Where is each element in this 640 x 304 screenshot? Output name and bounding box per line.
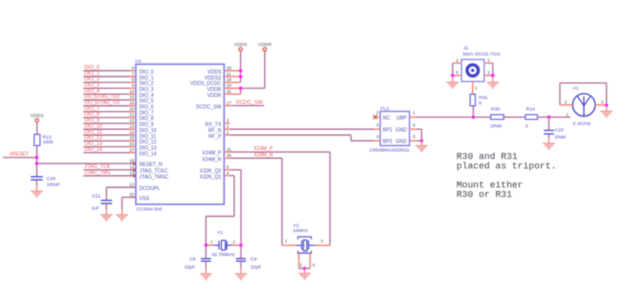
svg-text:33: 33 bbox=[129, 192, 134, 197]
svg-text:11: 11 bbox=[227, 71, 232, 76]
svg-text:25: 25 bbox=[129, 136, 134, 141]
svg-text:12: 12 bbox=[129, 182, 134, 187]
svg-text:10: 10 bbox=[129, 89, 134, 94]
svg-text:R14: R14 bbox=[526, 106, 535, 112]
svg-text:JTAG_TMSC: JTAG_TMSC bbox=[139, 175, 169, 181]
svg-text:22pF: 22pF bbox=[251, 264, 262, 270]
svg-text:16: 16 bbox=[129, 101, 134, 106]
svg-text:18: 18 bbox=[227, 77, 232, 82]
svg-text:C21: C21 bbox=[92, 194, 101, 200]
svg-text:21: 21 bbox=[129, 112, 134, 117]
svg-text:SMA-10V21-TGG: SMA-10V21-TGG bbox=[463, 52, 501, 58]
svg-text:24MHz: 24MHz bbox=[293, 228, 309, 234]
svg-text:DCOUPL: DCOUPL bbox=[139, 186, 160, 192]
svg-text:27: 27 bbox=[129, 147, 134, 152]
svg-text:NC: NC bbox=[383, 115, 391, 121]
svg-text:C28: C28 bbox=[47, 176, 56, 182]
svg-text:DCDC_SW: DCDC_SW bbox=[236, 100, 263, 106]
svg-text:R30: R30 bbox=[491, 106, 500, 112]
svg-text:X24M_N: X24M_N bbox=[254, 152, 274, 158]
svg-text:BP2: BP2 bbox=[383, 139, 393, 145]
svg-text:GND: GND bbox=[396, 127, 408, 133]
svg-text:X24M_P: X24M_P bbox=[202, 151, 222, 157]
svg-text:20: 20 bbox=[129, 106, 134, 111]
svg-text:R31: R31 bbox=[479, 95, 488, 101]
svg-text:17: 17 bbox=[227, 100, 232, 105]
svg-text:FL2: FL2 bbox=[381, 106, 390, 112]
svg-text:29: 29 bbox=[227, 83, 232, 88]
svg-text:nRESET: nRESET bbox=[10, 152, 29, 158]
svg-text:100nF: 100nF bbox=[47, 182, 61, 188]
svg-text:30: 30 bbox=[227, 153, 232, 158]
svg-text:A1: A1 bbox=[573, 85, 579, 91]
svg-text:0: 0 bbox=[479, 100, 482, 106]
svg-text:22pF: 22pF bbox=[184, 264, 195, 270]
svg-text:VSS: VSS bbox=[139, 196, 150, 202]
svg-text:100k: 100k bbox=[43, 140, 54, 146]
svg-text:VDDR: VDDR bbox=[258, 42, 272, 48]
svg-text:0: 0 bbox=[525, 124, 528, 130]
svg-text:C9: C9 bbox=[251, 256, 257, 262]
svg-text:Y1: Y1 bbox=[217, 230, 223, 236]
svg-text:RESET_N: RESET_N bbox=[139, 162, 162, 168]
svg-text:32: 32 bbox=[227, 89, 232, 94]
svg-text:VDDS: VDDS bbox=[30, 113, 43, 119]
svg-text:R30 or R31: R30 or R31 bbox=[457, 189, 513, 200]
svg-text:32.768kHz: 32.768kHz bbox=[212, 252, 236, 258]
svg-text:VDDS: VDDS bbox=[234, 42, 247, 48]
svg-text:2450BM14G0011: 2450BM14G0011 bbox=[369, 147, 409, 153]
svg-text:X32K_Q1: X32K_Q1 bbox=[200, 174, 222, 180]
svg-text:BP1: BP1 bbox=[383, 127, 393, 133]
svg-text:GND: GND bbox=[396, 139, 408, 145]
svg-text:X24M_N: X24M_N bbox=[202, 157, 222, 163]
svg-text:2.4GHz: 2.4GHz bbox=[573, 121, 592, 127]
svg-text:DIO_14: DIO_14 bbox=[84, 147, 102, 153]
svg-text:C8: C8 bbox=[189, 256, 195, 262]
svg-text:JTAG_TMS: JTAG_TMS bbox=[84, 170, 111, 176]
svg-text:DNM: DNM bbox=[491, 124, 502, 130]
svg-text:RF_P: RF_P bbox=[209, 134, 222, 140]
svg-text:U1: U1 bbox=[135, 58, 141, 64]
svg-text:DNM: DNM bbox=[555, 135, 566, 141]
svg-text:UBP: UBP bbox=[396, 115, 407, 121]
svg-text:VDDR: VDDR bbox=[207, 93, 222, 99]
svg-text:22: 22 bbox=[129, 118, 134, 123]
svg-text:31: 31 bbox=[227, 147, 232, 152]
svg-text:28: 28 bbox=[227, 66, 232, 71]
svg-text:23: 23 bbox=[129, 124, 134, 129]
svg-text:CC26xx-5x5: CC26xx-5x5 bbox=[136, 207, 162, 213]
svg-text:24: 24 bbox=[129, 130, 134, 135]
svg-text:C23: C23 bbox=[555, 128, 564, 134]
svg-text:15: 15 bbox=[129, 95, 134, 100]
svg-text:DIO_14: DIO_14 bbox=[139, 151, 156, 157]
svg-text:DCDC_SW: DCDC_SW bbox=[196, 104, 222, 110]
svg-text:1uF: 1uF bbox=[91, 206, 99, 212]
svg-text:X24M_P: X24M_P bbox=[254, 146, 274, 152]
svg-text:J1: J1 bbox=[463, 46, 468, 52]
svg-text:placed as triport.: placed as triport. bbox=[457, 161, 557, 172]
svg-text:26: 26 bbox=[129, 141, 134, 146]
